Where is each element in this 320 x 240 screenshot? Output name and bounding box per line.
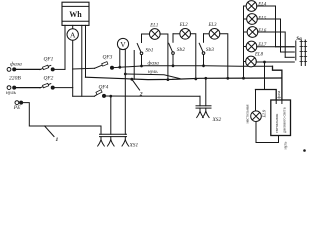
node branch3 on third wire [226, 77, 229, 80]
wire EL2 return [190, 34, 196, 79]
svg-text:QF1: QF1 [44, 56, 54, 62]
svg-text:QF4: QF4 [99, 85, 109, 91]
wire QF1 to Wh T1 [54, 68, 65, 70]
wire neutral input [16, 87, 41, 89]
lamp EL2 [180, 28, 191, 39]
lamp EL5 [244, 14, 281, 52]
svg-text:EL1: EL1 [149, 24, 158, 29]
wire QF2 to junction [54, 87, 73, 89]
svg-text:дневного света: дневного света [281, 107, 286, 133]
terminal фаза [7, 68, 16, 72]
wire phase input [16, 68, 41, 70]
breaker QF3 [95, 62, 114, 70]
wire EL9 return loop [256, 122, 279, 143]
kWh meter Wh [62, 2, 89, 25]
svg-text:нуль: нуль [283, 142, 288, 150]
wire fixture entry B [281, 100, 283, 104]
node leader 2 [130, 78, 133, 81]
svg-text:Sb1: Sb1 [145, 47, 153, 53]
wire to lamp EL1 [142, 33, 150, 35]
terminal PE [15, 101, 23, 105]
phase bus (фаза) [73, 67, 95, 70]
svg-text:настольная: настольная [245, 104, 250, 123]
svg-text:нуль: нуль [148, 69, 158, 75]
node V right on neutral bus [124, 73, 127, 76]
wire Wh terminal 2 (phase out) [72, 25, 74, 96]
svg-text:2: 2 [139, 91, 143, 97]
svg-text:QF3: QF3 [103, 54, 113, 60]
svg-text:EL5: EL5 [257, 16, 267, 21]
node branch1 on third wire [167, 78, 170, 81]
svg-text:EL2: EL2 [179, 23, 189, 28]
svg-text:EL3: EL3 [208, 23, 218, 28]
wire Wh terminal 4 [85, 25, 87, 77]
breaker QF4 [95, 90, 106, 98]
breaker QF2 [40, 83, 54, 89]
svg-text:Sa: Sa [296, 36, 302, 42]
wire lamp EL9 feed [256, 90, 277, 101]
lamp EL3 [209, 28, 220, 39]
svg-text:XS2: XS2 [212, 117, 222, 123]
svg-text:фаза: фаза [276, 91, 281, 99]
leader 1 [45, 126, 54, 137]
wire to lamp EL2 [173, 33, 180, 35]
wire fixture entry A [275, 100, 277, 104]
breaker QF1 [40, 65, 54, 71]
wire to lamp EL3 [204, 33, 210, 35]
neutral bus (нуль) [125, 74, 180, 79]
wire stub node 2 [133, 51, 135, 80]
wire PE run [22, 103, 101, 135]
lamp EL4 [244, 1, 276, 47]
svg-text:EL8: EL8 [254, 52, 264, 57]
lamp EL7 [244, 41, 295, 52]
wire QF4 to sockets [104, 95, 200, 97]
node V left on phase bus [118, 66, 121, 69]
svg-text:EL9: EL9 [261, 109, 266, 118]
chandelier group wires [276, 46, 295, 48]
node branch2 on third wire [194, 78, 197, 81]
svg-text:EL4: EL4 [257, 3, 267, 8]
node chandelier on third wire [242, 77, 245, 80]
svg-text:фаза: фаза [10, 61, 22, 68]
ammeter A [67, 29, 78, 40]
wire phase bus drop to fixture [273, 66, 282, 100]
svg-text:Sb3: Sb3 [206, 47, 214, 53]
svg-text:220В: 220В [9, 76, 21, 82]
socket XS2 [196, 77, 211, 118]
voltmeter V [117, 38, 128, 134]
switch Sa (chandelier selector) [296, 40, 307, 66]
chandelier common wire [243, 6, 245, 78]
svg-text:QF2: QF2 [44, 76, 54, 82]
wire EL3 return [220, 34, 228, 79]
terminal нуль [7, 86, 16, 90]
node EL8 tap [263, 61, 266, 64]
lamp EL9 [251, 111, 262, 122]
svg-text:фаза: фаза [148, 59, 160, 66]
wire phase bus to right [112, 66, 273, 68]
fluorescent fixture box [271, 100, 291, 136]
third distribution wire [86, 77, 282, 79]
breaker QF4 input wire [73, 95, 95, 97]
svg-text:EL6: EL6 [257, 29, 267, 34]
svg-text:светильник: светильник [274, 114, 279, 133]
lamp branch 2: switch Sb2 [169, 34, 175, 67]
svg-text:V: V [120, 40, 126, 49]
svg-text:нуль: нуль [6, 90, 17, 96]
lamp EL1 [149, 29, 160, 40]
socket XS1 [98, 95, 129, 146]
lamp EL6 [244, 27, 286, 58]
svg-text:Sb2: Sb2 [177, 47, 185, 53]
wire Wh terminal 1 [64, 25, 66, 69]
svg-text:EL7: EL7 [257, 43, 267, 48]
lamp branch 1: switch Sb1 [137, 34, 143, 67]
svg-text:РЕ: РЕ [13, 105, 21, 111]
svg-text:A: A [70, 31, 76, 40]
svg-text:XS1: XS1 [129, 142, 139, 148]
svg-text:1: 1 [56, 137, 59, 143]
lamp EL8 [244, 56, 295, 67]
wire EL1 return [160, 34, 168, 80]
svg-text:Wh: Wh [69, 10, 82, 19]
wire EL8 tap down [264, 62, 266, 90]
wire Wh terminal 3 [81, 25, 83, 96]
node stray dot [303, 149, 306, 152]
lamp branch 3: switch Sb3 [199, 34, 205, 67]
